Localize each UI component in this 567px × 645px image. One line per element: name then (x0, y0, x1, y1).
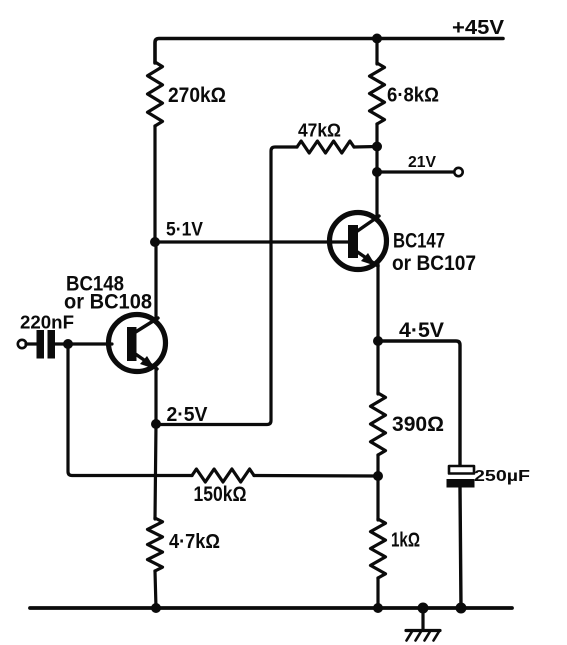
terminal input (18, 340, 26, 348)
wire top +45V rail (155, 39, 503, 64)
svg-text:+45V: +45V (452, 17, 505, 39)
wire 150k right lead to feedback junction (254, 474, 378, 478)
transistor Q1 BC148 (109, 315, 166, 372)
node feedback junction (373, 471, 383, 481)
resistor 47kOhm (297, 141, 354, 153)
label 4.7kOhm value (169, 531, 220, 553)
wire input terminal to capacitor (26, 342, 37, 345)
wire 1k bottom to ground rail (376, 578, 379, 608)
svg-text:150kΩ: 150kΩ (194, 483, 247, 506)
svg-text:270kΩ: 270kΩ (168, 84, 226, 107)
capacitor 220nF (37, 330, 56, 359)
wire 270k bottom to 5.1V node (153, 126, 156, 242)
wire 4.5V node to 390 top (376, 341, 379, 394)
node 2.5V junction (151, 419, 161, 429)
label 250uF value (474, 468, 530, 485)
svg-text:BC147: BC147 (393, 230, 445, 253)
label 1kOhm value (391, 530, 420, 552)
svg-text:2·5V: 2·5V (167, 403, 208, 426)
wire capacitor to BC148 base (55, 342, 112, 345)
label or BC108 (64, 291, 152, 314)
wire BC148 collector to 5.1V node (154, 242, 157, 319)
wire 21V tap down to BC147 collector (375, 172, 378, 219)
label 220nF value (20, 313, 74, 333)
svg-text:or BC107: or BC107 (392, 252, 476, 275)
svg-text:47kΩ: 47kΩ (298, 121, 341, 141)
wire 4.5V node right and down to capacitor (378, 341, 460, 466)
capacitor 250uF (447, 466, 475, 608)
svg-text:5·1V: 5·1V (166, 220, 203, 241)
node 21V tap junction (372, 167, 382, 177)
label 270kOhm value (168, 84, 226, 107)
svg-text:6·8kΩ: 6·8kΩ (387, 84, 439, 107)
node rail ground junction (418, 603, 429, 614)
terminal 21V output (454, 168, 462, 176)
wire 47k junction down to 21V tap (375, 147, 378, 173)
wire 6.8k bottom to 47k junction (375, 124, 378, 147)
label or BC107 (392, 252, 476, 275)
svg-text:1kΩ: 1kΩ (391, 530, 420, 552)
svg-text:250µF: 250µF (474, 468, 530, 485)
wire BC148 emitter down to 2.5V node (154, 368, 157, 424)
wire feedback junction to 1k top (376, 476, 379, 520)
wire BC147 emitter down to 4.5V node (376, 264, 379, 341)
wire 390 bottom to feedback junction (376, 455, 379, 476)
label BC147 (393, 230, 445, 253)
svg-text:390Ω: 390Ω (392, 413, 444, 436)
node input base junction (63, 339, 73, 349)
wire base junction down to 150k (68, 344, 192, 476)
label 21V (408, 154, 437, 171)
resistor 150kOhm (192, 469, 254, 482)
label 6.8kOhm value (387, 84, 439, 107)
node rail 1k junction (373, 603, 383, 613)
wire 5.1V node to BC147 base (155, 240, 349, 243)
label BC148 (66, 273, 124, 296)
node rail capacitor junction (456, 603, 467, 614)
svg-text:or BC108: or BC108 (64, 291, 152, 314)
wire 21V tap to output terminal (377, 170, 453, 173)
transistor Q2 BC147 (330, 213, 387, 270)
node rail left junction (151, 603, 161, 613)
node top rail junction (372, 34, 382, 44)
label 2.5V (167, 403, 208, 426)
wire 47k right lead to divider junction (354, 145, 377, 149)
label 47kOhm value (298, 121, 341, 141)
label 4.5V (399, 319, 444, 342)
ground (406, 608, 440, 641)
svg-text:220nF: 220nF (20, 313, 74, 333)
svg-text:21V: 21V (408, 154, 437, 171)
svg-text:4·7kΩ: 4·7kΩ (169, 531, 220, 553)
wire bottom ground rail (30, 606, 512, 610)
node 4.5V junction (373, 336, 383, 346)
label +45V (452, 17, 505, 39)
resistor 390Ohm (371, 393, 386, 455)
label 5.1V (166, 220, 203, 241)
resistor 6.8kOhm (370, 63, 385, 124)
wire +45V rail to 6.8k top (375, 39, 378, 65)
resistor 1kOhm (371, 519, 386, 578)
label 390Ohm value (392, 413, 444, 436)
wire 2.5V node right and up to 47k left lead (156, 147, 297, 425)
svg-text:4·5V: 4·5V (399, 319, 444, 342)
resistor 270kOhm (148, 62, 163, 126)
node 47k junction (372, 142, 382, 152)
resistor 4.7kOhm (148, 518, 163, 571)
wire 4.7k bottom to ground rail (155, 571, 156, 608)
node 5.1V junction (150, 237, 160, 247)
wire 2.5V node down to 4.7k (155, 424, 156, 519)
label 150kOhm value (194, 483, 247, 506)
